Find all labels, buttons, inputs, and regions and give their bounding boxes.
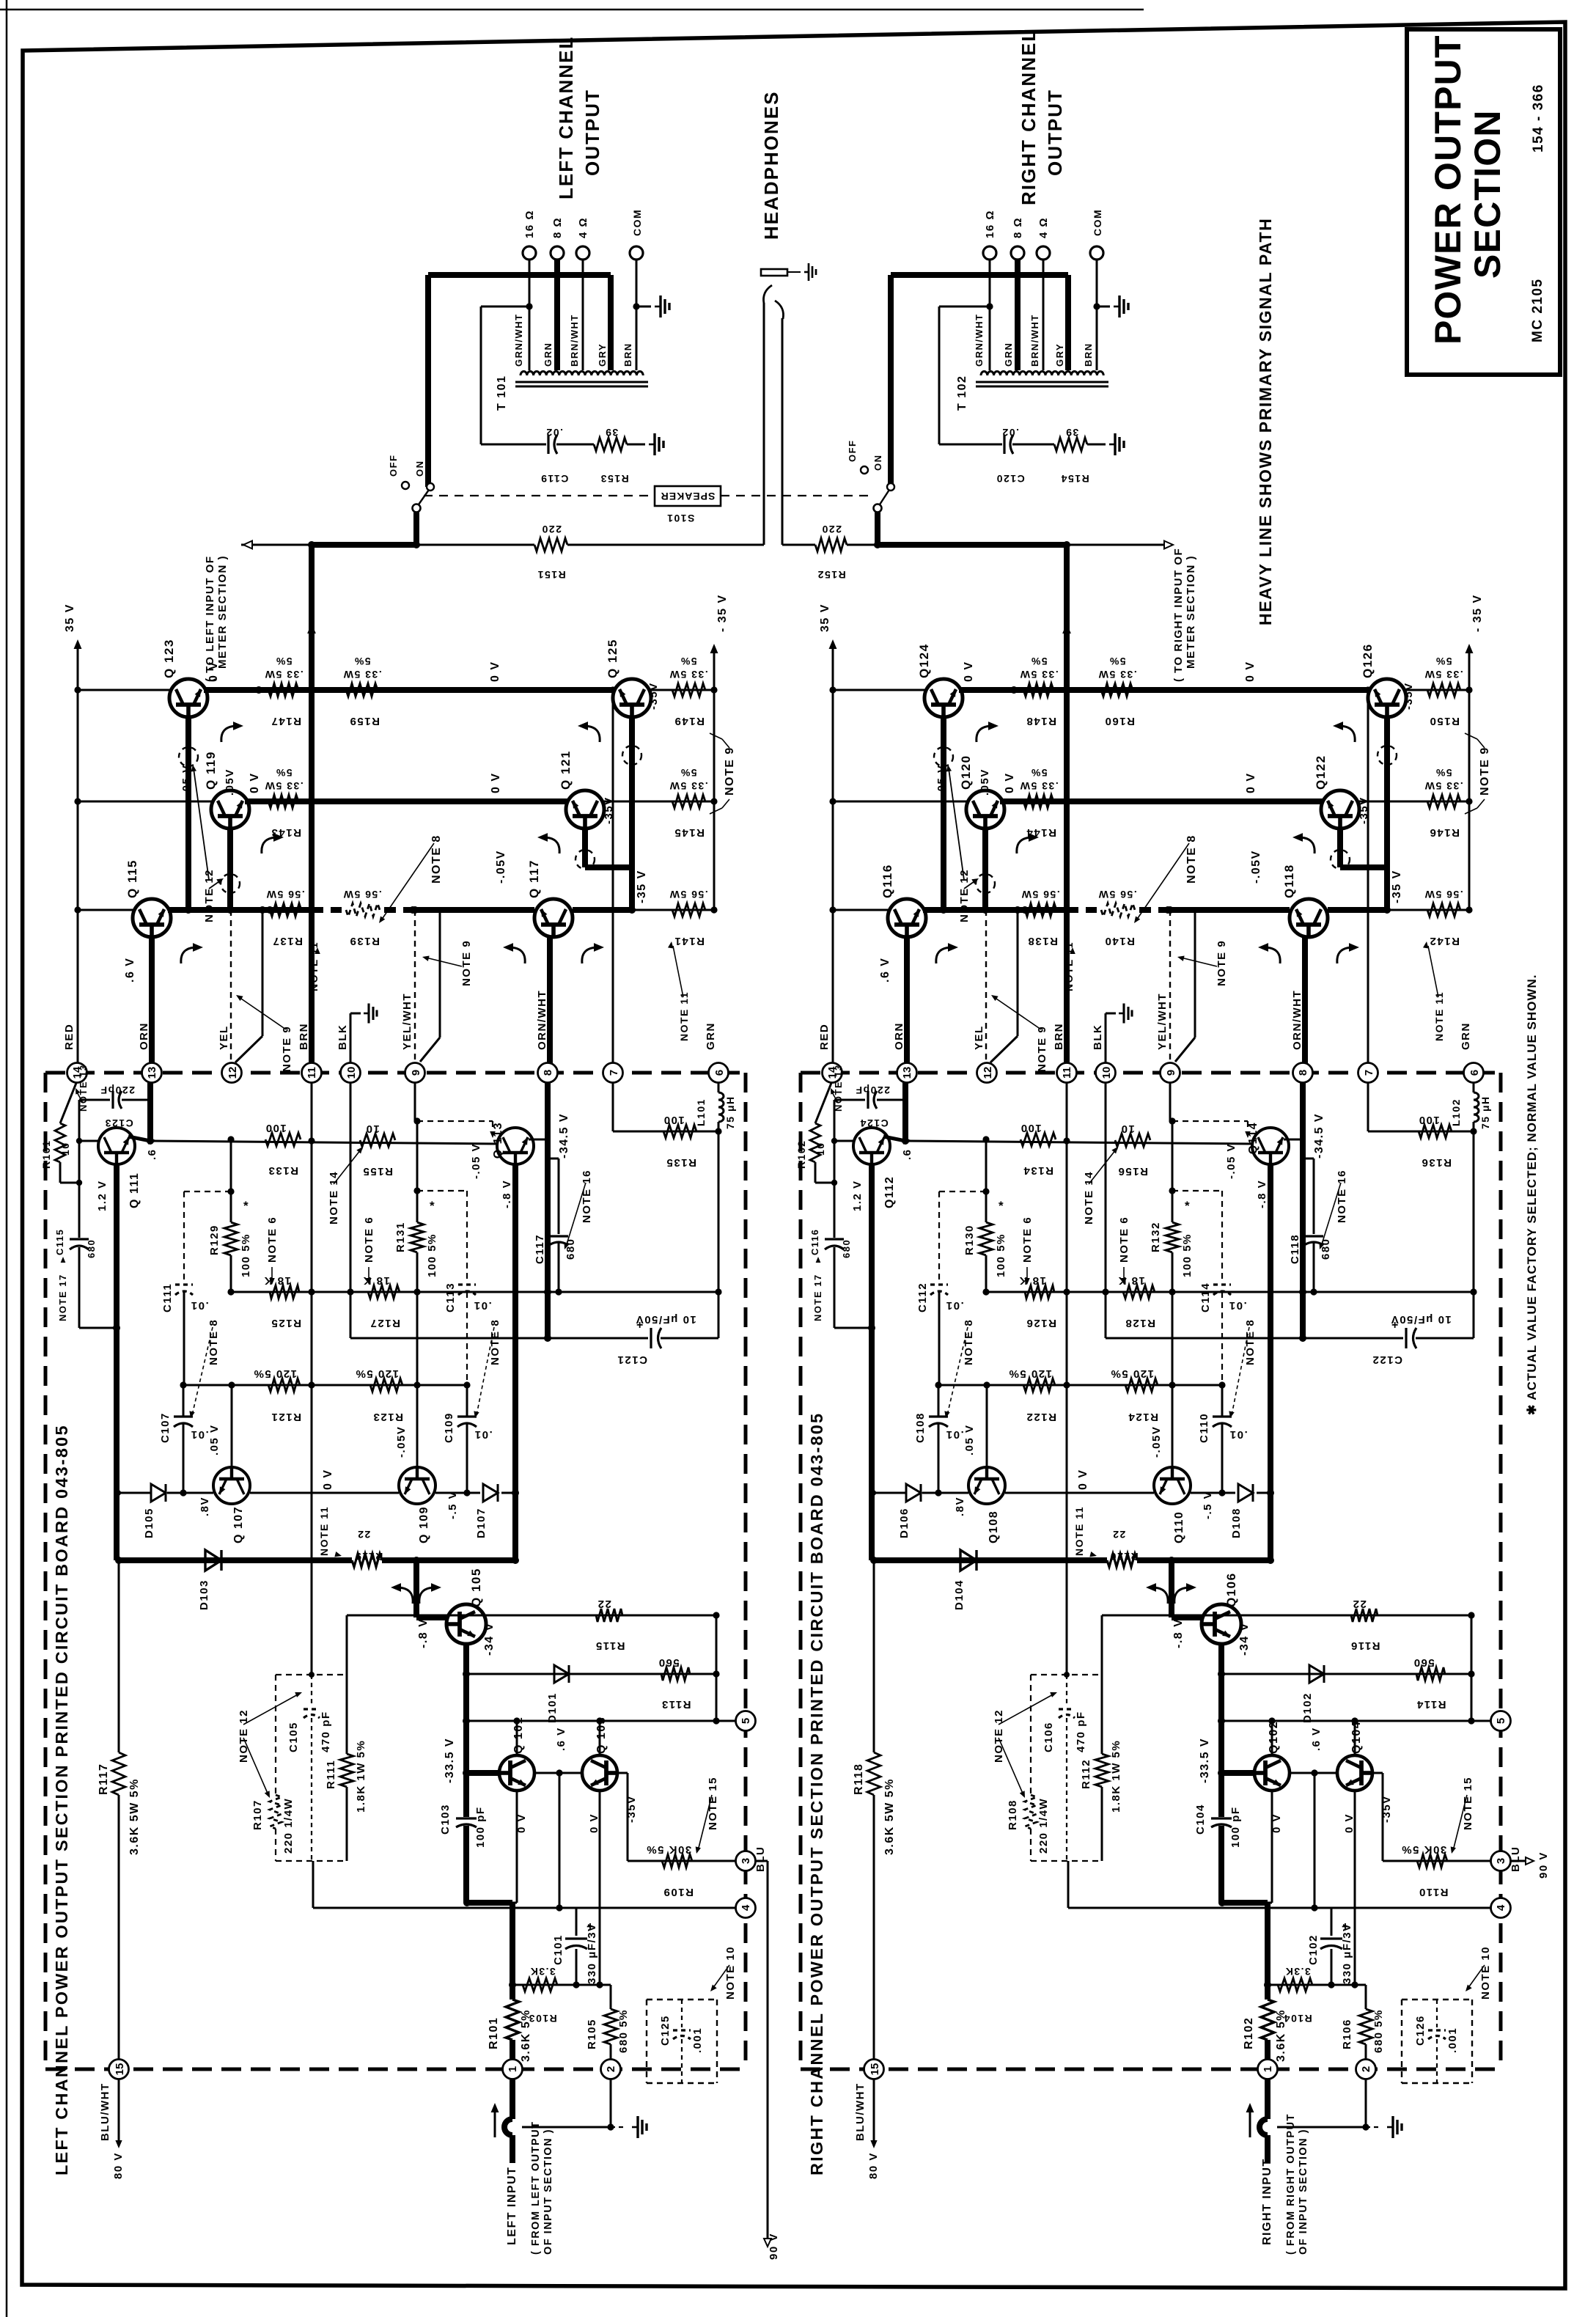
svg-text:D102: D102 bbox=[1301, 1692, 1314, 1723]
svg-text:+: + bbox=[1342, 1920, 1349, 1934]
svg-text:C119: C119 bbox=[540, 473, 569, 485]
svg-text:R122: R122 bbox=[1026, 1411, 1056, 1423]
svg-text:OFF: OFF bbox=[388, 455, 399, 477]
wire pin 8 heavy column on board bbox=[1300, 1082, 1306, 1338]
svg-text:0 V: 0 V bbox=[1343, 1813, 1356, 1833]
capacitor C101 330uF/3V bbox=[573, 1981, 579, 1988]
svg-text:6: 6 bbox=[1468, 1070, 1481, 1076]
wire Q101-Q103 link bbox=[1290, 1772, 1337, 1774]
wire 100-ohm row bbox=[151, 1141, 497, 1144]
capacitor C115 680 bbox=[70, 1238, 89, 1240]
wire meter line left channel heavy bbox=[241, 544, 312, 546]
transistor Q107 bbox=[213, 1467, 250, 1504]
wire BRN tap to COM bbox=[636, 260, 638, 370]
svg-text:BRN: BRN bbox=[1083, 342, 1094, 367]
flow arrow bbox=[262, 837, 278, 853]
svg-text:RIGHT CHANNEL: RIGHT CHANNEL bbox=[1018, 29, 1040, 205]
svg-text:.6 V: .6 V bbox=[879, 958, 891, 983]
terminal 8-ohm bbox=[551, 246, 564, 260]
capacitor C114 .01 dashed (NOTE 8) bbox=[1172, 1190, 1222, 1191]
svg-text:( FROM RIGHT OUTPUT: ( FROM RIGHT OUTPUT bbox=[1285, 2113, 1297, 2255]
wire pin 5 line -33.5V bbox=[467, 1720, 736, 1722]
transistor Q113 bbox=[497, 1128, 534, 1164]
svg-text:C122: C122 bbox=[1372, 1354, 1402, 1366]
svg-text:-.05V: -.05V bbox=[1150, 1426, 1163, 1458]
wire box bottom to pin 4 row bbox=[312, 1861, 315, 1908]
capacitor C123 220pF bbox=[79, 1099, 110, 1101]
capacitor C126 .001 dashed in NOTE 10 box bbox=[1402, 1999, 1472, 2000]
wire pin 9 YEL/WHT column with jog bbox=[1194, 910, 1196, 1038]
svg-text:10: 10 bbox=[365, 1123, 380, 1135]
pin 2 bbox=[601, 2060, 621, 2079]
wire right join column bbox=[716, 1615, 718, 1721]
resistor R118 3.6K 5W 5% bbox=[867, 1752, 880, 1795]
svg-text:Q108: Q108 bbox=[988, 1510, 1000, 1543]
svg-text:5%: 5% bbox=[1030, 767, 1047, 779]
svg-text:NOTE 10: NOTE 10 bbox=[1479, 1946, 1492, 2000]
svg-text:.02: .02 bbox=[1001, 427, 1019, 438]
svg-text:NOTE 9: NOTE 9 bbox=[1479, 746, 1491, 796]
svg-text:R111: R111 bbox=[325, 1760, 337, 1789]
svg-text:.05 V: .05 V bbox=[180, 764, 193, 796]
svg-text:D107: D107 bbox=[475, 1508, 488, 1538]
resistor R156 10 bbox=[1115, 1134, 1150, 1147]
wire Q103 emitter down bbox=[1354, 1791, 1356, 1985]
svg-text:C110: C110 bbox=[1198, 1413, 1210, 1443]
svg-text:R110: R110 bbox=[1418, 1886, 1448, 1898]
svg-text:.05 V: .05 V bbox=[208, 1424, 221, 1455]
wire Q119 base column heavy bbox=[227, 829, 233, 910]
svg-text:120 5%: 120 5% bbox=[253, 1367, 297, 1380]
switch S101 right section bbox=[875, 512, 880, 545]
wire row A right thin bbox=[650, 689, 714, 691]
dashed note 9 wire above pin 12 bbox=[230, 910, 232, 1060]
flow arrow bbox=[221, 726, 238, 742]
pin 1 bbox=[503, 2060, 523, 2079]
wire left switch to transformer heavy bbox=[428, 486, 430, 488]
svg-text:R134: R134 bbox=[1023, 1164, 1053, 1177]
transistor Q111 bbox=[98, 1128, 135, 1164]
svg-text:R145: R145 bbox=[674, 826, 705, 839]
svg-text:+: + bbox=[636, 1319, 643, 1332]
svg-text:560: 560 bbox=[1413, 1656, 1435, 1669]
svg-text:.33 5W: .33 5W bbox=[264, 780, 303, 792]
svg-text:NOTE 11: NOTE 11 bbox=[678, 991, 690, 1041]
svg-text:C111: C111 bbox=[161, 1283, 174, 1312]
svg-text:Q122: Q122 bbox=[1314, 754, 1328, 790]
svg-text:L102: L102 bbox=[1450, 1098, 1462, 1126]
transistor Q112 bbox=[853, 1128, 890, 1164]
svg-text:C125: C125 bbox=[659, 2015, 672, 2046]
svg-text:13: 13 bbox=[901, 1067, 913, 1079]
resistor R147 .33 5W 5% bbox=[268, 683, 298, 697]
svg-text:.01: .01 bbox=[190, 1428, 208, 1441]
svg-text:.33 5W: .33 5W bbox=[264, 669, 303, 680]
svg-text:OUTPUT: OUTPUT bbox=[1044, 89, 1066, 176]
svg-text:GRN/WHT: GRN/WHT bbox=[974, 313, 985, 367]
capacitor C106 470pF dashed in series with bus bbox=[1066, 1675, 1067, 1706]
svg-text:0 V: 0 V bbox=[489, 661, 501, 682]
svg-text:13: 13 bbox=[146, 1067, 158, 1079]
wire Q101-Q103 link bbox=[534, 1772, 582, 1774]
svg-text:680 5%: 680 5% bbox=[1372, 2009, 1385, 2053]
svg-text:C104: C104 bbox=[1194, 1804, 1207, 1835]
svg-text:Q 115: Q 115 bbox=[125, 859, 139, 898]
svg-text:5%: 5% bbox=[1108, 656, 1125, 667]
pin 5 bbox=[1491, 1711, 1511, 1731]
svg-text:R102: R102 bbox=[1243, 2017, 1255, 2049]
ground at pin 10 BLK bbox=[1105, 1013, 1107, 1069]
svg-text:RIGHT INPUT: RIGHT INPUT bbox=[1261, 2158, 1273, 2245]
svg-text:RED: RED bbox=[63, 1024, 76, 1050]
transistor Q121 bbox=[566, 790, 604, 829]
svg-text:R107: R107 bbox=[251, 1799, 264, 1830]
transistor Q115 bbox=[133, 899, 171, 937]
svg-text:.01: .01 bbox=[473, 1299, 491, 1312]
svg-text:12: 12 bbox=[982, 1067, 994, 1079]
svg-text:220pF: 220pF bbox=[855, 1084, 890, 1096]
wire collector row B left (thin) bbox=[78, 801, 214, 803]
wire pin 7 sense line to row A bbox=[612, 690, 614, 1069]
svg-text:R146: R146 bbox=[1429, 826, 1460, 839]
svg-text:7: 7 bbox=[608, 1070, 620, 1076]
headphone jack tip line bbox=[763, 303, 765, 545]
svg-text:R154: R154 bbox=[1060, 473, 1089, 485]
capacitor C117 680 bbox=[548, 1158, 559, 1160]
svg-text:220: 220 bbox=[541, 524, 562, 535]
wire emitter row B heavy bbox=[1000, 798, 1323, 804]
svg-text:C108: C108 bbox=[914, 1412, 927, 1443]
pin 12 bbox=[222, 1063, 242, 1083]
ground at COM bbox=[655, 295, 669, 317]
wire Q101 collector to pin5 line bbox=[516, 1721, 518, 1755]
resistor R125 18K bbox=[270, 1285, 299, 1299]
svg-text:( FROM LEFT OUTPUT: ( FROM LEFT OUTPUT bbox=[530, 2121, 542, 2255]
svg-text:10: 10 bbox=[59, 1142, 71, 1156]
diode D106 bbox=[906, 1484, 921, 1502]
svg-text:R118: R118 bbox=[853, 1763, 865, 1795]
headphone jack plug bbox=[761, 269, 787, 276]
resistor R134 100 bbox=[1021, 1133, 1056, 1146]
svg-text:LEFT INPUT: LEFT INPUT bbox=[506, 2167, 518, 2245]
svg-text:8: 8 bbox=[1297, 1070, 1309, 1076]
svg-text:R114: R114 bbox=[1416, 1698, 1446, 1711]
svg-text:C105: C105 bbox=[287, 1722, 300, 1752]
resistor R107 220 1/4W dashed bbox=[270, 1795, 282, 1829]
transistor Q117 bbox=[534, 899, 573, 937]
svg-text:Q 107: Q 107 bbox=[232, 1506, 245, 1543]
resistor R136 100 with row to pin 7 bbox=[1367, 1082, 1369, 1131]
svg-text:NOTE 9: NOTE 9 bbox=[724, 746, 736, 796]
svg-text:470 pF: 470 pF bbox=[320, 1711, 332, 1752]
svg-text:NOTE 6: NOTE 6 bbox=[266, 1216, 279, 1263]
svg-text:ON: ON bbox=[414, 460, 425, 477]
capacitor C109 .01 bbox=[466, 1385, 468, 1416]
capacitor C124 220pF bbox=[834, 1099, 865, 1101]
svg-text:Q 105: Q 105 bbox=[469, 1568, 483, 1607]
pin 7 bbox=[603, 1063, 623, 1083]
note 12 dashed circle bbox=[575, 850, 595, 869]
svg-text:35 V: 35 V bbox=[819, 603, 831, 632]
svg-text:3.6K 5W 5%: 3.6K 5W 5% bbox=[883, 1778, 896, 1855]
wire 4-ohm tap BRN/WHT bbox=[1042, 260, 1045, 370]
svg-text:6: 6 bbox=[713, 1070, 726, 1076]
svg-text:.56 5W: .56 5W bbox=[342, 889, 381, 900]
svg-text:-34.5 V: -34.5 V bbox=[1313, 1113, 1325, 1158]
svg-text:3: 3 bbox=[740, 1858, 752, 1864]
svg-text:S101: S101 bbox=[666, 513, 695, 524]
svg-text:Q 125: Q 125 bbox=[606, 639, 619, 678]
svg-text:D108: D108 bbox=[1230, 1508, 1243, 1538]
svg-text:0 V: 0 V bbox=[1004, 772, 1016, 793]
pin 14 bbox=[823, 1063, 842, 1083]
svg-text:NOTE 12: NOTE 12 bbox=[958, 869, 971, 922]
svg-text:R151: R151 bbox=[537, 569, 565, 581]
resistor R120 22 (NOTE 11) bbox=[1107, 1554, 1137, 1567]
svg-text:NOTE 12: NOTE 12 bbox=[993, 1709, 1005, 1763]
svg-text:C123: C123 bbox=[104, 1117, 133, 1129]
svg-text:5%: 5% bbox=[275, 656, 292, 667]
svg-text:Q 117: Q 117 bbox=[527, 859, 541, 898]
svg-text:Q114: Q114 bbox=[1247, 1122, 1259, 1154]
svg-text:.01: .01 bbox=[945, 1299, 963, 1312]
transistor Q109 bbox=[399, 1467, 435, 1504]
ground after R154 bbox=[1109, 433, 1124, 455]
dashed note 9 wire above pin 9 bbox=[1169, 910, 1171, 1060]
wire +35V rail feed (Q116 bank collectors) bbox=[832, 644, 834, 1069]
svg-text:R136: R136 bbox=[1421, 1156, 1452, 1169]
wire box bottom to pin 4 row bbox=[1067, 1861, 1070, 1908]
svg-text:8 Ω: 8 Ω bbox=[551, 217, 564, 238]
svg-text:BLU: BLU bbox=[754, 1846, 767, 1872]
wire 4-ohm tap BRN/WHT bbox=[582, 260, 584, 370]
svg-text:YEL: YEL bbox=[218, 1025, 230, 1050]
wire bias row heavy bbox=[119, 1557, 352, 1563]
svg-text:-35V: -35V bbox=[1358, 796, 1370, 824]
svg-text:NOTE 6: NOTE 6 bbox=[1021, 1216, 1034, 1263]
svg-text:.02: .02 bbox=[545, 427, 563, 438]
flow arrow bbox=[1152, 1587, 1168, 1604]
svg-text:1: 1 bbox=[1262, 2066, 1274, 2072]
svg-text:.8V: .8V bbox=[199, 1497, 211, 1516]
svg-text:.33 5W: .33 5W bbox=[1019, 669, 1058, 680]
dashed note 9 wire above pin 12 bbox=[985, 910, 987, 1060]
svg-text:8: 8 bbox=[542, 1070, 554, 1076]
capacitor C108 .01 bbox=[938, 1385, 940, 1416]
svg-text:30K 5%: 30K 5% bbox=[646, 1843, 691, 1856]
wire input node elbow heavy bbox=[467, 1900, 512, 1906]
wire Q108 base column bbox=[986, 1385, 988, 1467]
svg-text:1.8K 1W 5%: 1.8K 1W 5% bbox=[1110, 1740, 1122, 1813]
resistor R129 100 5%* with column bbox=[230, 1139, 232, 1222]
pin 10 bbox=[341, 1063, 361, 1083]
svg-text:-.8 V: -.8 V bbox=[1256, 1180, 1268, 1208]
dashed note 8 jumper from pin 9 to Q113 bbox=[417, 1120, 493, 1122]
svg-text:RIGHT CHANNEL POWER OUTPUT SEC: RIGHT CHANNEL POWER OUTPUT SECTION PRINT… bbox=[807, 1412, 826, 2175]
wire Q114 base heavy column bbox=[1268, 1164, 1273, 1560]
svg-text:-.8 V: -.8 V bbox=[1172, 1618, 1185, 1648]
junction bbox=[829, 798, 836, 804]
svg-text:C102: C102 bbox=[1307, 1934, 1320, 1965]
svg-text:100 5%: 100 5% bbox=[426, 1233, 438, 1277]
diode D108 bbox=[1238, 1484, 1253, 1502]
svg-text:OF INPUT SECTION ): OF INPUT SECTION ) bbox=[543, 2129, 554, 2255]
pin 3 bbox=[736, 1851, 756, 1871]
wire Q118 base to pin 8 heavy bbox=[1302, 937, 1308, 1069]
svg-text:22: 22 bbox=[1352, 1598, 1367, 1610]
pin 15 bbox=[864, 2060, 884, 2079]
svg-text:120 5%: 120 5% bbox=[1008, 1367, 1052, 1380]
svg-text:C106: C106 bbox=[1042, 1722, 1055, 1752]
transistor Q124 bbox=[924, 679, 963, 717]
svg-text:.56 5W: .56 5W bbox=[1097, 889, 1136, 900]
resistor R137 .56 5W bbox=[270, 903, 301, 917]
wire bias row heavy bbox=[874, 1557, 1107, 1563]
wire GRY tap heavy from switch bbox=[425, 275, 431, 487]
svg-text:R129: R129 bbox=[208, 1224, 221, 1255]
svg-text:.01: .01 bbox=[1229, 1428, 1247, 1441]
wire row C right thin bbox=[632, 909, 714, 911]
wire Q120 base column heavy bbox=[982, 829, 988, 910]
svg-text:NOTE 16: NOTE 16 bbox=[581, 1169, 593, 1223]
capacitor C122 10uF/50V electrolytic bbox=[1105, 1082, 1107, 1338]
svg-text:C113: C113 bbox=[444, 1282, 457, 1312]
svg-text:470 pF: 470 pF bbox=[1075, 1711, 1087, 1752]
svg-text:22: 22 bbox=[1112, 1529, 1126, 1541]
svg-text:220 1/4W: 220 1/4W bbox=[282, 1798, 295, 1854]
svg-text:560: 560 bbox=[658, 1656, 680, 1669]
svg-text:NOTE 6: NOTE 6 bbox=[1118, 1216, 1130, 1263]
terminal 4-ohm bbox=[1037, 246, 1050, 260]
transistor Q126 bbox=[1368, 679, 1406, 717]
wire row B right thin bbox=[601, 801, 714, 803]
left channel 90V feedback wire bbox=[755, 1860, 768, 1862]
svg-text:5%: 5% bbox=[353, 656, 370, 667]
wire Q106 base heavy from bias row bbox=[1169, 1560, 1174, 1618]
svg-text:BRN/WHT: BRN/WHT bbox=[569, 314, 580, 367]
svg-text:Q102: Q102 bbox=[1268, 1721, 1280, 1754]
svg-text:-.05V: -.05V bbox=[1250, 850, 1262, 884]
pin 6 bbox=[709, 1063, 729, 1083]
svg-text:D106: D106 bbox=[898, 1508, 911, 1538]
resistor R138 .56 5W bbox=[1025, 903, 1056, 917]
transistor Q114 bbox=[1252, 1128, 1289, 1164]
resistor R124 120 5% bbox=[1125, 1378, 1158, 1392]
resistor R116 22 bbox=[1351, 1609, 1378, 1622]
capacitor C116 680 bbox=[825, 1238, 844, 1240]
wire D102 row bbox=[1221, 1673, 1471, 1675]
svg-text:LEFT CHANNEL POWER OUTPUT SECT: LEFT CHANNEL POWER OUTPUT SECTION PRINTE… bbox=[52, 1424, 71, 2175]
svg-text:-35V: -35V bbox=[603, 796, 615, 824]
wire 18K row bbox=[986, 1291, 1474, 1293]
capacitor C105 470pF dashed in series with bus bbox=[311, 1675, 312, 1706]
flow arrow bbox=[1298, 837, 1314, 853]
wire row C right thin bbox=[1387, 909, 1469, 911]
wire input heavy bbox=[510, 2079, 515, 2119]
svg-text:YEL/WHT: YEL/WHT bbox=[401, 993, 413, 1050]
svg-text:R148: R148 bbox=[1026, 715, 1056, 727]
svg-text:220: 220 bbox=[821, 524, 842, 535]
transistor Q106 driver bbox=[1202, 1604, 1241, 1644]
svg-text:SPEAKER: SPEAKER bbox=[661, 491, 716, 502]
wire Q103 emitter down bbox=[599, 1791, 601, 1985]
svg-text:R128: R128 bbox=[1125, 1317, 1155, 1329]
svg-text:.56 5W: .56 5W bbox=[1424, 889, 1463, 900]
right channel 90V arrow bbox=[1510, 1860, 1529, 1862]
svg-text:9: 9 bbox=[1165, 1070, 1177, 1076]
wire Q106 emitter column heavy bbox=[1218, 1644, 1224, 1817]
svg-text:1.2 V: 1.2 V bbox=[96, 1180, 109, 1211]
diode D107 bbox=[483, 1484, 498, 1502]
capacitor C110 .01 bbox=[1221, 1385, 1224, 1416]
chassis ground at input bbox=[1387, 2116, 1402, 2138]
note 12 dashed circle bbox=[1331, 850, 1350, 869]
wire Q107 base column bbox=[231, 1385, 233, 1467]
svg-text:R149: R149 bbox=[674, 715, 705, 727]
transistor Q101 bbox=[499, 1755, 534, 1791]
svg-text:C101: C101 bbox=[552, 1934, 565, 1965]
svg-text:100 5%: 100 5% bbox=[1181, 1233, 1194, 1277]
resistor R123 120 5% bbox=[370, 1378, 402, 1392]
pin 14 bbox=[67, 1063, 87, 1083]
inductor L101 75uH on pin 6 column bbox=[718, 1082, 720, 1093]
svg-text:100 pF: 100 pF bbox=[474, 1806, 487, 1848]
svg-text:4 Ω: 4 Ω bbox=[577, 217, 589, 238]
svg-text:18 K: 18 K bbox=[1117, 1274, 1145, 1287]
svg-text:R133: R133 bbox=[268, 1164, 298, 1177]
svg-text:NOTE 9: NOTE 9 bbox=[281, 1026, 293, 1072]
wire Q102 base heavy bbox=[1222, 1770, 1254, 1776]
svg-text:C117: C117 bbox=[534, 1234, 546, 1264]
wire feedback column bbox=[834, 1100, 836, 1238]
svg-text:METER SECTION ): METER SECTION ) bbox=[1185, 555, 1197, 669]
svg-text:LEFT CHANNEL: LEFT CHANNEL bbox=[555, 36, 577, 199]
pin 13 bbox=[142, 1063, 162, 1083]
pin 8 bbox=[1293, 1063, 1313, 1083]
junction bbox=[829, 906, 836, 913]
svg-text:10: 10 bbox=[345, 1067, 358, 1079]
svg-text:22: 22 bbox=[357, 1529, 371, 1541]
wire pin 12 YEL column with jog bbox=[1017, 910, 1019, 1036]
svg-text:*: * bbox=[243, 1199, 249, 1213]
wire pin 8 heavy column on board bbox=[545, 1082, 551, 1338]
svg-text:BLU/WHT: BLU/WHT bbox=[854, 2082, 867, 2141]
svg-text:R141: R141 bbox=[674, 935, 705, 947]
resistor R104 3.3K bbox=[1278, 1978, 1312, 1991]
svg-text:120 5%: 120 5% bbox=[1110, 1367, 1154, 1380]
svg-text:C124: C124 bbox=[859, 1117, 888, 1129]
wire Q105 emitter column heavy bbox=[463, 1644, 469, 1817]
wire collector row A left (thin) bbox=[833, 689, 926, 691]
pin 15 bbox=[109, 2060, 129, 2079]
switch S101 left section bbox=[413, 512, 419, 545]
svg-text:ORN/WHT: ORN/WHT bbox=[536, 990, 548, 1050]
svg-text:Q 113: Q 113 bbox=[492, 1122, 504, 1158]
svg-text:75 μH: 75 μH bbox=[724, 1095, 736, 1129]
svg-text:100: 100 bbox=[1020, 1122, 1042, 1134]
svg-text:BRN/WHT: BRN/WHT bbox=[1029, 314, 1040, 367]
svg-text:R116: R116 bbox=[1350, 1639, 1380, 1652]
resistor R131 100 5%* on pin9 column bbox=[411, 1222, 424, 1252]
svg-text:10: 10 bbox=[1100, 1067, 1113, 1079]
svg-text:Q110: Q110 bbox=[1173, 1511, 1185, 1543]
svg-text:D101: D101 bbox=[546, 1692, 559, 1723]
svg-text:R124: R124 bbox=[1128, 1411, 1158, 1423]
resistor R108 220 1/4W dashed bbox=[1025, 1795, 1037, 1829]
svg-text:39: 39 bbox=[1065, 427, 1079, 438]
wire bus pin11 column down into board bbox=[311, 1082, 313, 1675]
svg-text:NOTE 12: NOTE 12 bbox=[203, 869, 216, 922]
